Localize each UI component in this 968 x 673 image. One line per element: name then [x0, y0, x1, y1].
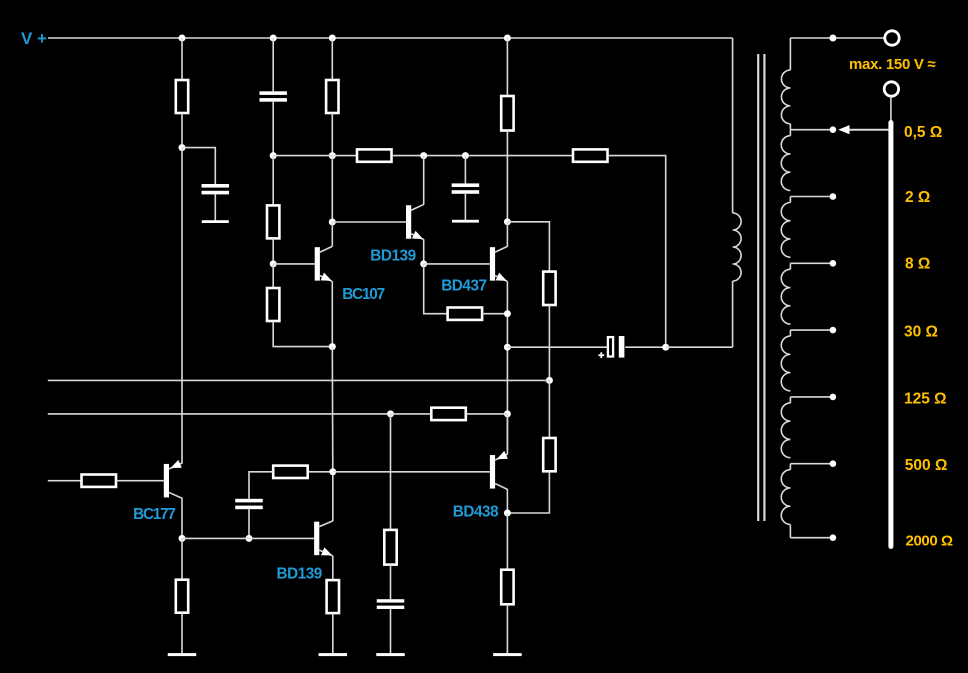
wire rail-C top — [331, 38, 333, 80]
node F2 junction — [504, 310, 511, 317]
V+ supply rail wire — [48, 37, 733, 39]
wire node D1 down to R8 — [424, 264, 448, 314]
wire R6 to node B2 — [272, 238, 274, 264]
svg-text:8 Ω: 8 Ω — [905, 256, 930, 273]
selector arrow shaft — [846, 129, 889, 131]
wire BD139b emitter to R15 — [332, 556, 334, 580]
wire rail-F top — [506, 38, 508, 96]
resistor R3 — [501, 96, 513, 131]
node bus3/rail-I junction — [387, 410, 394, 417]
svg-text:0,5 Ω: 0,5 Ω — [904, 124, 942, 141]
node F3 junction — [504, 344, 511, 351]
wire node bus3 down to R16 — [390, 414, 392, 530]
wire rail-A top — [181, 38, 183, 80]
wire node C3a to R13 — [307, 471, 333, 473]
capacitor C6 electrolytic positive plate — [619, 336, 625, 358]
wire secondary winding joints — [789, 124, 791, 130]
wire R3 to node F1 — [506, 131, 508, 222]
transformer core line 1 — [757, 54, 759, 521]
node F3b junction — [504, 410, 511, 417]
wire C5 to ground — [390, 609, 392, 655]
wire node G1 to R10 — [548, 380, 550, 438]
ground bar 3 — [376, 653, 405, 656]
svg-text:2 Ω: 2 Ω — [905, 189, 930, 206]
node V+/rail-A junction — [179, 35, 186, 42]
svg-text:V +: V + — [21, 29, 47, 48]
node C3a junction — [329, 468, 336, 475]
wire C2 to node B1 — [272, 102, 274, 156]
wire R8 to node F2 — [482, 313, 507, 315]
wire primary bottom lead — [732, 281, 734, 347]
wire C6 to node H1 — [625, 346, 666, 348]
terminal circle T2 — [884, 82, 898, 96]
wire node C1b to BD139 base — [332, 221, 406, 223]
resistor R8 — [448, 308, 483, 320]
resistor R16 — [384, 530, 396, 565]
resistor R6 — [267, 205, 279, 238]
wire C4 to node A3 — [248, 509, 250, 538]
secondary tap wires with dots — [790, 129, 833, 131]
wire R2 to node C1a — [331, 113, 333, 156]
capacitor C1 — [202, 184, 230, 188]
wire C1 bottom — [214, 194, 216, 221]
selector arrow head — [838, 125, 849, 134]
resistor R13 — [273, 466, 308, 478]
resistor R2 — [326, 80, 338, 113]
transistor Q5 BD139 — [314, 522, 319, 556]
wire node C1a to node C1b — [331, 156, 333, 222]
wire BC107 emitter to node C2a — [331, 281, 333, 346]
svg-text:BD438: BD438 — [453, 503, 499, 520]
node secondary top tap dot — [829, 35, 836, 42]
wire node D1 to BD437 base — [424, 263, 490, 265]
node F4 junction — [504, 510, 511, 517]
wire input bus 3 — [48, 413, 391, 415]
wire R1 to node A1 — [181, 113, 183, 148]
wire node H1 to primary — [666, 346, 733, 348]
resistor R4 — [357, 149, 392, 161]
capacitor C6 plus sign — [598, 354, 604, 356]
wire BD139 collector to bus — [423, 156, 425, 205]
transistor Q1 BC107 — [315, 247, 320, 281]
node bus/C3 junction — [462, 152, 469, 159]
capacitor C3 end bar — [452, 220, 479, 223]
node F1 junction — [504, 218, 511, 225]
node B2 junction — [270, 260, 277, 267]
wire upper bus middle — [392, 155, 574, 157]
wire node C1b to BC107 collector — [331, 222, 333, 246]
capacitor C4 — [235, 499, 263, 503]
wire node B2 to R7 — [272, 264, 274, 288]
svg-text:BD139: BD139 — [370, 248, 415, 265]
node C1a junction — [329, 152, 336, 159]
transistor Q2 BD139 — [406, 205, 411, 239]
capacitor C1 end bar — [202, 220, 229, 223]
wire R14 to ground — [181, 613, 183, 655]
resistor R7 — [267, 288, 279, 321]
wire node A1 to C1 — [182, 148, 215, 184]
resistor R9 — [543, 272, 555, 305]
resistor R15 — [327, 580, 339, 613]
wire secondary bottom tap — [790, 537, 833, 539]
wire node F3 to C6 — [507, 346, 607, 348]
wire bus to C3 — [464, 156, 466, 184]
svg-text:125 Ω: 125 Ω — [904, 391, 947, 408]
wire node A2 to BD139b base — [182, 537, 314, 539]
ground bar 4 — [493, 653, 522, 656]
wire rail-B top — [272, 38, 274, 91]
wire bus471 to BD438 base — [333, 471, 490, 473]
wire rail-A middle — [181, 148, 183, 464]
node V+/rail-B junction — [270, 35, 277, 42]
node A3 junction — [246, 535, 253, 542]
resistor R1 — [176, 80, 188, 113]
wire BD139b collector to node C3a — [332, 472, 334, 521]
wire node C2a down to node C3a — [331, 347, 334, 472]
resistor R5 — [573, 149, 608, 161]
resistor R11 — [431, 408, 466, 420]
wire R15 to ground — [332, 613, 334, 655]
capacitor C6 electrolytic negative plate — [608, 337, 613, 356]
node V+/rail-C junction — [329, 35, 336, 42]
node V+/rail-F junction — [504, 35, 511, 42]
terminal circle T1 — [885, 31, 899, 45]
svg-text:BD139: BD139 — [277, 565, 322, 582]
wire node B1 to R6 — [272, 156, 274, 206]
resistor R17 — [501, 570, 513, 605]
node D1 junction — [420, 260, 427, 267]
node bus/rail-D junction — [420, 152, 427, 159]
selector bar — [888, 123, 893, 547]
svg-text:BD437: BD437 — [441, 277, 486, 294]
wire BD437 emitter down rail-F — [506, 282, 508, 450]
wire R11 to node F3b — [467, 413, 508, 415]
wire secondary top lead — [789, 38, 791, 70]
wire input to R12 — [48, 480, 82, 482]
resistor R10 — [543, 438, 555, 471]
transistor Q6 BD438 — [490, 455, 495, 489]
transformer primary winding — [733, 213, 742, 281]
node A1 junction — [179, 144, 186, 151]
ground bar 1 — [168, 653, 197, 656]
wire R16 to C5 — [390, 565, 392, 600]
wire BD437 collector to node F1 — [506, 222, 508, 247]
node C1b junction — [329, 219, 336, 226]
wire BD438 collector to node F4 — [506, 489, 508, 513]
wire R9 to node G1 — [548, 305, 550, 380]
node A2 junction — [179, 535, 186, 542]
wire BD139 emitter to node D1 — [423, 239, 425, 264]
wire bus3 to R11 — [391, 413, 432, 415]
transformer core line 2 — [763, 54, 765, 521]
capacitor C2 — [259, 91, 287, 95]
wire node F1 to R9 — [507, 222, 549, 272]
svg-text:max. 150 V ≈: max. 150 V ≈ — [849, 56, 935, 73]
wire V+ down to transformer primary — [732, 38, 734, 213]
wire BC177 emitter to rail-A — [181, 462, 183, 465]
wire BC177 collector down — [181, 498, 183, 539]
capacitor C5 — [377, 599, 405, 602]
wire node F4 to R17 — [506, 513, 508, 570]
wire input bus 2 (feedback) — [48, 379, 550, 381]
svg-text:BC107: BC107 — [342, 286, 384, 303]
transformer secondary winding — [781, 70, 790, 124]
wire node A2 to R14 — [181, 538, 183, 579]
wire upper bus right — [608, 156, 666, 348]
node B1 junction — [270, 152, 277, 159]
resistor R14 — [176, 580, 188, 613]
wire R7 to node C2a — [273, 321, 332, 347]
svg-text:2000 Ω: 2000 Ω — [906, 532, 954, 549]
wire BD438 emitter to node F3b — [506, 414, 508, 455]
node C2a junction — [329, 343, 336, 350]
wire C3 bottom — [464, 194, 466, 221]
ground bar 2 — [319, 653, 348, 656]
transistor Q4 BC177 — [164, 464, 169, 498]
wire secondary top tap — [790, 37, 883, 39]
wire R13 to corner — [249, 472, 273, 499]
wire R17 to ground — [506, 604, 508, 654]
node secondary bottom tap dot — [830, 534, 837, 541]
svg-text:500 Ω: 500 Ω — [905, 457, 948, 474]
wire R12 to BC177 base — [116, 480, 164, 482]
resistor R12 — [82, 475, 117, 487]
wire upper bus left — [273, 155, 357, 157]
capacitor C3 — [452, 183, 480, 187]
wire R10 to node F4 — [507, 471, 549, 513]
svg-text:BC177: BC177 — [133, 506, 175, 523]
wire T2 stem — [890, 97, 892, 122]
node G1 junction — [546, 377, 553, 384]
svg-text:30 Ω: 30 Ω — [904, 323, 938, 340]
node H1 junction — [662, 344, 669, 351]
transistor Q3 BD437 — [490, 247, 495, 281]
